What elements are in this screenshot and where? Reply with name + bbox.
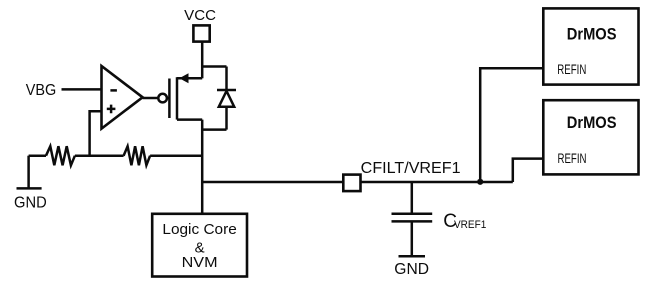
wire R2 to node [150,154,202,157]
junction node [477,179,483,185]
capacitor C1 plates [392,214,433,222]
transistor Q1 gate bubble [158,94,167,103]
svg-text:VCC: VCC [184,7,216,24]
diode D1 triangle [219,91,234,107]
wire feedback to op-amp non-inverting input [90,111,102,156]
transistor Q1 drain lead [177,118,202,121]
svg-text:REFIN: REFIN [558,151,587,166]
wire diode top branch [202,65,226,68]
resistor R2 [124,146,151,165]
wire R1 to R2 [75,154,124,157]
svg-text:DrMOS: DrMOS [567,26,617,44]
op-amp U1 minus sign [110,89,117,92]
Logic Core box [152,214,247,277]
wire node to CFILT pin [202,181,343,184]
ground bar right [399,255,426,258]
wire capacitor to ground [411,223,414,256]
wire junction to DrMOS 1 [480,68,543,182]
wire to capacitor [411,182,414,213]
DrMOS box 1 [543,8,638,84]
op-amp U1 plus sign [107,105,116,114]
transistor Q1 source arrow [179,73,188,83]
pin CFILT/VREF1 [343,175,360,192]
wire drain to node [201,120,204,215]
svg-text:Logic Core: Logic Core [162,221,236,238]
svg-text:VBG: VBG [26,82,57,99]
wire to left ground [27,156,30,188]
resistor R1 [46,146,75,165]
svg-text:DrMOS: DrMOS [567,114,617,132]
svg-text:GND: GND [394,261,429,278]
wire VCC pin to transistor source [201,42,204,78]
wire to DrMOS 2 [513,159,544,182]
wire gnd to R1 [29,154,46,157]
svg-text:CFILT/VREF1: CFILT/VREF1 [361,160,461,177]
svg-text:REFIN: REFIN [557,62,586,77]
wire VBG to op-amp inverting input [62,88,102,91]
svg-text:GND: GND [14,194,47,211]
transistor Q1 gate bar [168,79,171,119]
svg-text:NVM: NVM [182,254,218,271]
diode D1 anode wire [225,107,228,130]
wire op-amp output [143,97,159,100]
DrMOS box 2 [543,100,638,174]
op-amp U1 body [102,66,143,129]
pin VCC [193,25,209,41]
wire CFILT pin to DrMOS branch [361,181,513,184]
wire diode bottom branch [202,128,226,131]
transistor Q1 source lead [177,77,202,80]
wire bubble to gate [167,97,170,100]
transistor Q1 channel [176,77,179,119]
diode D1 cathode bar [217,89,236,92]
ground bar left [17,187,42,190]
svg-text:VREF1: VREF1 [454,219,486,231]
diode D1 cathode wire [225,67,228,91]
